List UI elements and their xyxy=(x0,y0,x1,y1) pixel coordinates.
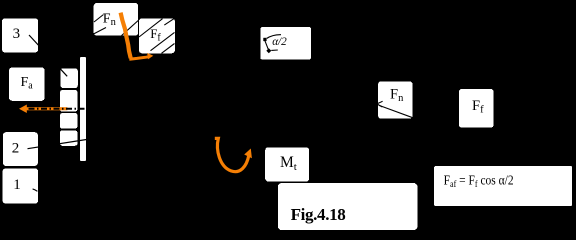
orange polyline horizontal segment xyxy=(129,57,150,60)
washer stack plate C xyxy=(60,113,78,129)
angle handle diamond xyxy=(266,48,271,53)
leader line from 3 to plate A xyxy=(29,35,67,76)
leader hook from 1 xyxy=(33,189,38,191)
callout box Mt xyxy=(265,147,309,181)
leader arrowhead stroke lower xyxy=(377,104,382,107)
thread flank line 1 in Fn box xyxy=(94,15,104,23)
svg-text:3: 3 xyxy=(13,26,21,42)
vertical bar (screw shank) xyxy=(80,57,86,161)
callout box Ff (middle) xyxy=(459,89,494,128)
orange Fa arrowhead xyxy=(19,105,27,114)
washer stack plate D xyxy=(60,130,78,145)
callout box Fn (middle) xyxy=(378,81,413,118)
orange torque arc arrow xyxy=(215,138,249,171)
thread flank line 1 in Ff box xyxy=(139,19,163,37)
svg-text:Fig.4.18: Fig.4.18 xyxy=(291,205,346,224)
svg-text:2: 2 xyxy=(12,141,19,157)
angle handle square xyxy=(263,38,266,41)
torque arrowhead xyxy=(244,149,252,159)
callout box 1 xyxy=(3,169,39,204)
callout box 3 xyxy=(2,18,38,52)
angle base line xyxy=(271,49,278,51)
thread flank line 3 in Fn box xyxy=(122,21,139,36)
thread flank line 2 in Fn box xyxy=(94,28,107,35)
black dash-dot centerline xyxy=(29,108,89,110)
callout box 2 xyxy=(3,132,38,166)
svg-text:1: 1 xyxy=(13,177,20,193)
leader line in Fn middle box xyxy=(379,105,413,118)
leader line from 2 to bar xyxy=(28,140,87,149)
washer stack plate A xyxy=(61,68,78,88)
orange force polyline arrow xyxy=(121,13,131,59)
thread flank line 2 in Ff box xyxy=(151,32,175,50)
callout box Fa xyxy=(9,68,45,101)
orange polyline arrowhead xyxy=(147,53,153,59)
caption box Fig.4.18 xyxy=(278,183,418,230)
angle arc xyxy=(267,35,281,39)
formula box xyxy=(434,166,572,206)
thread flank line 3 in Ff box xyxy=(162,44,175,54)
leader arrowhead stroke upper xyxy=(377,101,383,104)
angle leg line xyxy=(265,41,268,50)
washer stack plate B xyxy=(60,90,78,112)
orange Fa arrow shaft xyxy=(25,107,67,110)
callout box alpha/2 xyxy=(261,27,311,59)
thread flank line 4 in Ff box xyxy=(164,18,174,25)
callout box Fn (top) xyxy=(94,3,139,36)
callout box Ff (top) xyxy=(139,19,175,54)
svg-text:α/2: α/2 xyxy=(272,36,287,48)
